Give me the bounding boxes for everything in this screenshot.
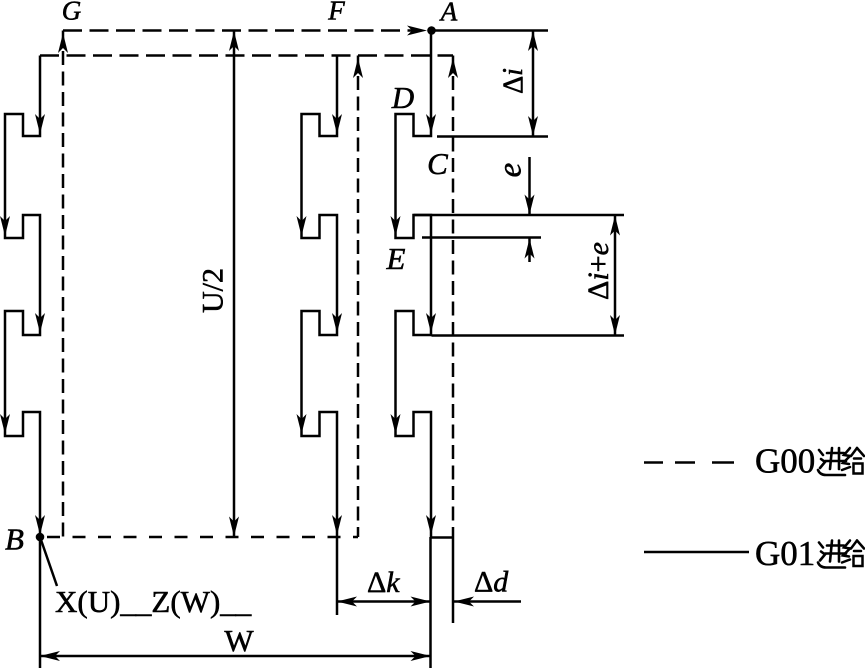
wire: G00 rapid dashed line at second level (y=55.5) — [40, 54, 453, 57]
dimension Dd horizontal line — [454, 600, 521, 603]
svg-text:G00: G00 — [755, 442, 815, 481]
arrowhead up on right dashed return — [448, 58, 458, 78]
dimension Dk horizontal line — [337, 600, 431, 603]
wire: G00 dashed bottom line from B (y=537) — [47, 536, 358, 539]
arrowheads of e dimension — [525, 195, 535, 215]
arrowhead on top rapid line pointing right at A — [407, 26, 427, 36]
dimension Di+e vertical line — [614, 216, 617, 336]
wire: G00 rapid dashed line from G to A (top) — [63, 29, 413, 32]
arrowheads on right column passes — [426, 114, 436, 134]
leader line from node B to code text — [40, 537, 57, 586]
wire: solid segment from last pass end to dashed return (y=537.5) — [431, 536, 453, 539]
svg-text:E: E — [386, 241, 406, 276]
arrowheads of Dk dimension — [337, 597, 357, 607]
svg-text:Δi: Δi — [498, 68, 529, 94]
svg-text:D: D — [391, 80, 414, 115]
node B dot — [36, 533, 45, 542]
wire: G00 dashed vertical return middle (x=358) — [357, 56, 360, 538]
wire: G00 dashed vertical return at left (x=63) — [62, 31, 65, 538]
wire: G00 dashed vertical return right (x=453) — [452, 56, 455, 538]
wire: extension line at first step (y=136.5) — [437, 135, 548, 138]
wire: extension of right column to bottom (x=430.5) — [429, 537, 432, 668]
arrowhead up on left dashed return — [58, 33, 68, 53]
wire: extension of middle column below bottom (x=337) — [336, 537, 339, 615]
arrowhead of Dd dimension — [454, 597, 474, 607]
wire: extension line from A to the right (y=30.5) — [432, 29, 549, 32]
svg-text:Δd: Δd — [474, 566, 509, 599]
arrowheads on left column passes — [35, 114, 45, 134]
wire: extension line below B (x=40) — [39, 537, 42, 668]
wire: G01 middle column zigzag tool path — [302, 56, 338, 538]
svg-text:A: A — [439, 0, 458, 27]
legend hanzi jin (G00 row) — [818, 448, 846, 475]
svg-text:C: C — [427, 146, 448, 181]
wire: solid extension of x=453 line below bottom — [452, 537, 455, 623]
arrowheads on middle column passes — [332, 114, 342, 134]
wire: extension line at level E (y=237.5) — [422, 236, 541, 239]
svg-text:W: W — [224, 623, 254, 658]
wire: extension line at level C step (y=215) — [414, 214, 625, 217]
legend hanzi jin (G01 row) — [818, 541, 846, 568]
node A dot — [427, 26, 436, 35]
svg-text:F: F — [327, 0, 345, 26]
dimension e upper leg — [528, 157, 531, 214]
dimension U/2 vertical line — [233, 32, 236, 537]
svg-text:X(U)__Z(W)__: X(U)__Z(W)__ — [55, 584, 252, 619]
svg-text:G01: G01 — [755, 534, 815, 573]
svg-text:Δk: Δk — [367, 566, 400, 599]
svg-text:G: G — [62, 0, 82, 26]
svg-text:U/2: U/2 — [196, 268, 229, 313]
dimension e lower leg — [528, 239, 531, 263]
dimension Di vertical line — [532, 31, 535, 136]
wire: extension line at third step (y=335.5) — [432, 334, 625, 337]
arrowhead up on middle dashed return — [353, 58, 363, 78]
legend solid G01 sample line — [644, 551, 749, 554]
legend hanzi gei (G01 row) — [842, 541, 864, 567]
svg-text:Δi+e: Δi+e — [582, 242, 615, 300]
arrowheads of U/2 dimension — [229, 31, 239, 51]
dimension W horizontal line — [40, 655, 431, 658]
legend hanzi gei (G00 row) — [842, 448, 864, 474]
arrowheads of W dimension — [40, 651, 60, 661]
svg-text:B: B — [5, 522, 24, 557]
arrowheads of Di dimension — [528, 31, 538, 51]
svg-text:e: e — [493, 163, 529, 178]
wire: G01 right column zigzag tool path from A — [396, 31, 432, 538]
wire: G01 left column zigzag tool path — [5, 56, 40, 538]
legend dashed G00 sample line — [644, 461, 734, 464]
arrowheads of Di+e dimension — [610, 216, 620, 236]
